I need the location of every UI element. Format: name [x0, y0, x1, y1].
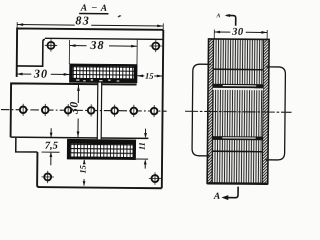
- bottom screw holes: [44, 173, 158, 182]
- top strap inner line: [17, 39, 45, 66]
- svg-text:7,5: 7,5: [45, 141, 58, 152]
- svg-text:A: A: [100, 4, 107, 14]
- right strap strip: [262, 39, 269, 183]
- dimension 7,5: [45, 128, 58, 165]
- top winding block: [69, 64, 137, 83]
- svg-text:30: 30: [33, 66, 49, 80]
- extension line right of top winding: [136, 40, 138, 65]
- top screw holes: [47, 41, 159, 49]
- left bobbin flange: [192, 64, 211, 156]
- extension line left of top winding: [68, 40, 70, 64]
- svg-text:15: 15: [145, 71, 154, 81]
- svg-text:–: –: [91, 3, 97, 13]
- dimension 38: [70, 38, 137, 53]
- core outline: [207, 39, 269, 184]
- svg-text:A: A: [213, 192, 220, 202]
- svg-text:38: 38: [89, 38, 105, 52]
- core column: vertical lamination hatch: [212, 39, 264, 184]
- bottom plate: [37, 152, 162, 188]
- rivet holes middle row: [20, 106, 158, 114]
- coil upper boundary line: [213, 68, 263, 70]
- svg-text:83: 83: [75, 13, 90, 27]
- bottom winding block: [67, 139, 136, 160]
- section arrow bottom (A): [213, 186, 238, 202]
- dimension 30 (right view): [214, 27, 267, 39]
- svg-text:11: 11: [137, 142, 147, 150]
- middle plate: [11, 83, 137, 138]
- left strap strip: [207, 39, 213, 183]
- top plate outline: [17, 28, 164, 78]
- title A-A: [79, 3, 108, 14]
- centerline of right view: [185, 111, 291, 112]
- svg-text:15: 15: [78, 164, 88, 173]
- svg-text:30: 30: [68, 101, 80, 115]
- right bobbin flange: [265, 67, 285, 160]
- right edge of core (continuous): [162, 30, 164, 188]
- dimension 15 (vertical, bottom): [78, 159, 88, 186]
- dimension 30 (vertical, middle): [68, 85, 81, 137]
- bottom tongue: [16, 138, 38, 152]
- dimension 83: [17, 13, 163, 30]
- dimension 11 (vertical, right): [136, 129, 149, 169]
- svg-text:30: 30: [231, 27, 244, 38]
- winding top dark band: [213, 84, 263, 89]
- section arrow top (A): [215, 13, 235, 25]
- ink speck: [117, 15, 121, 17]
- dimension 30 (top left): [17, 66, 70, 81]
- svg-text:A: A: [80, 4, 87, 14]
- centerline through holes: [1, 110, 167, 112]
- coil lower boundary line: [212, 150, 262, 152]
- dimension 15 (top right): [137, 71, 162, 81]
- winding bottom dark band: [212, 136, 262, 140]
- center web: [97, 83, 101, 140]
- hole cross ticks (vertical): [23, 104, 154, 117]
- svg-text:A: A: [215, 13, 220, 19]
- 7.5 extension line: [42, 151, 60, 153]
